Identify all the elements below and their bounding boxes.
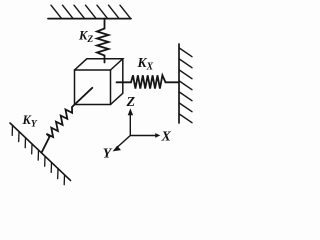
svg-text:KY: KY — [22, 113, 38, 130]
right wall line — [178, 44, 180, 123]
mass cube: right face — [111, 59, 123, 105]
spring KX — [117, 75, 179, 88]
svg-text:Z: Z — [126, 95, 136, 110]
axis Z (vertical arrow) — [129, 114, 131, 136]
left wall hatching — [12, 125, 64, 184]
ceiling hatching — [51, 5, 131, 18]
mass cube: top face — [75, 59, 123, 70]
arrowhead Y — [113, 146, 121, 152]
arrowhead Z — [128, 108, 133, 115]
spring KZ — [97, 19, 109, 63]
axis X (horizontal arrow) — [130, 135, 155, 137]
left inclined wall line — [10, 123, 71, 180]
svg-text:X: X — [161, 130, 172, 145]
svg-text:KZ: KZ — [78, 29, 93, 46]
arrowhead X — [155, 133, 160, 138]
svg-text:KX: KX — [137, 55, 154, 73]
spring KY (with connector from face centre through corner, to wall) — [42, 88, 93, 153]
ceiling wall line — [48, 18, 131, 20]
svg-text:Y: Y — [103, 147, 113, 162]
right wall hatching — [179, 48, 192, 123]
mass cube: front face — [75, 70, 111, 105]
axis Y (diagonal arrow) — [117, 136, 131, 148]
